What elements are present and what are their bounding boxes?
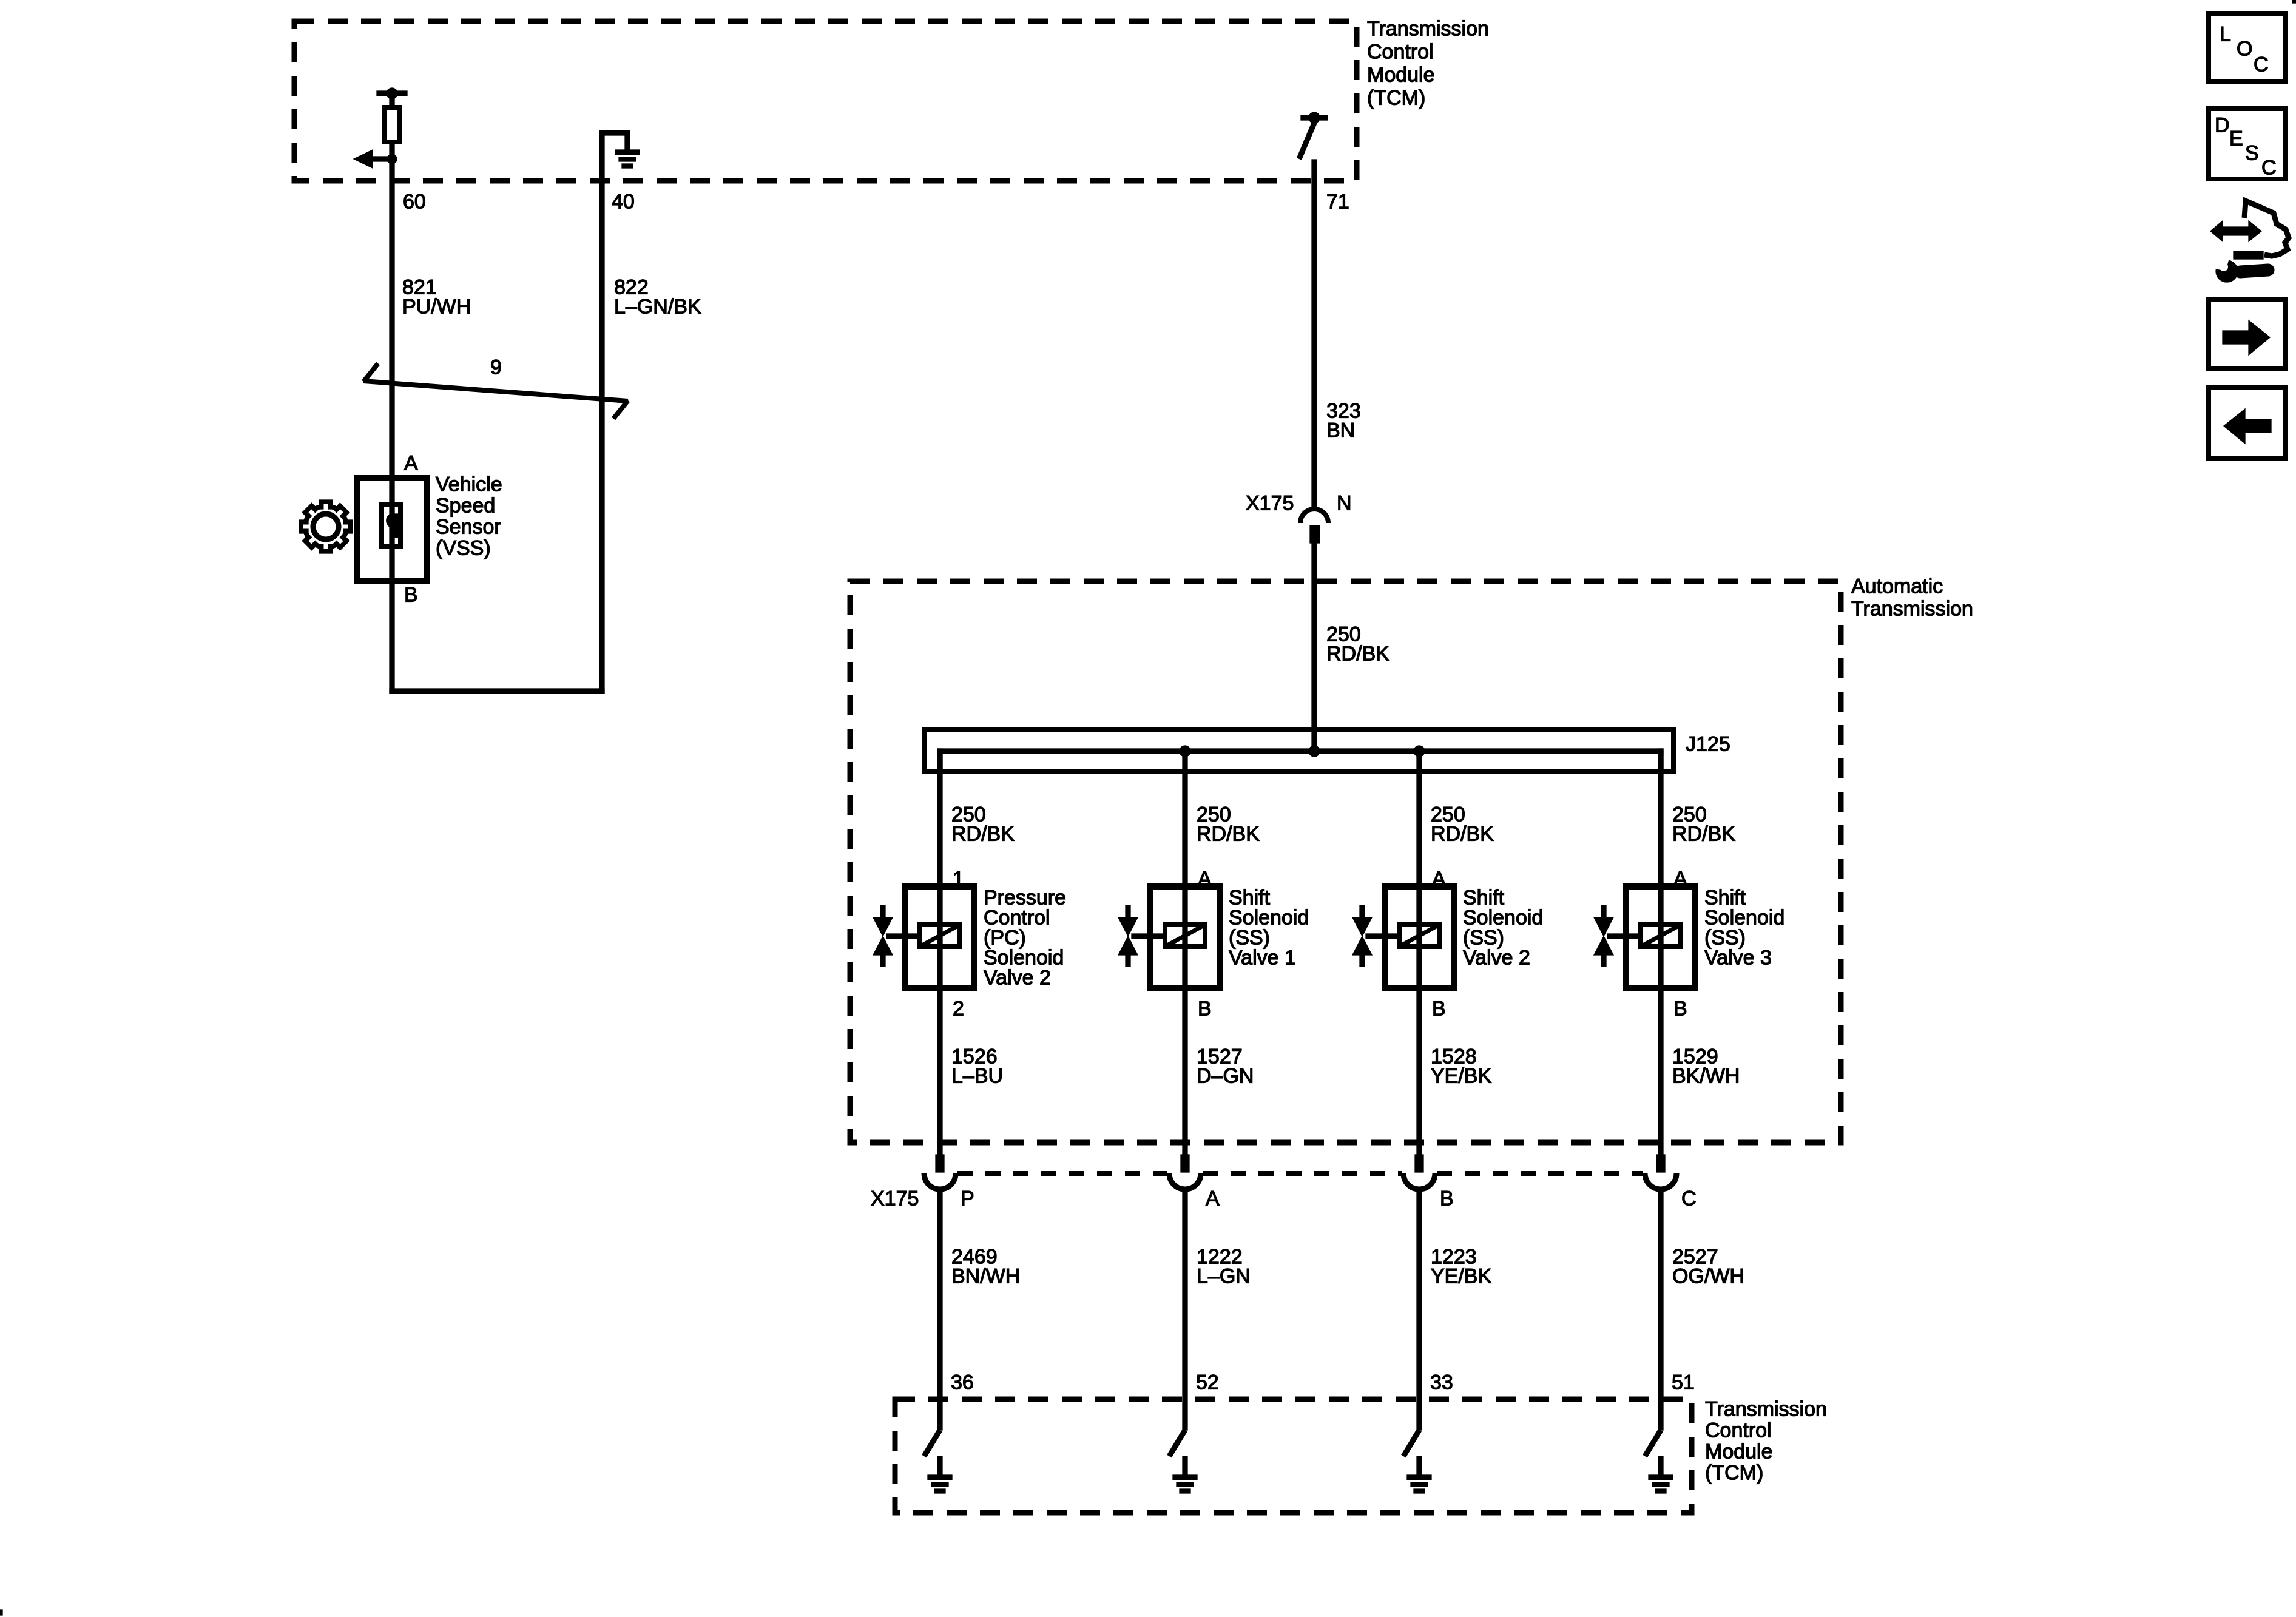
svg-text:Valve 3: Valve 3	[1704, 947, 1772, 970]
svg-text:PU/WH: PU/WH	[402, 295, 471, 319]
switch (TCM internal, pin 52)	[1169, 1430, 1185, 1456]
pin 33 label	[1430, 1371, 1453, 1394]
pin 52 label	[1196, 1371, 1219, 1394]
svg-text:(TCM): (TCM)	[1367, 87, 1425, 110]
connector X175 pin P label	[961, 1187, 974, 1210]
splice J125 (bus bar)	[925, 730, 1673, 772]
svg-text:L: L	[2220, 23, 2231, 46]
wire: resistor to pin 60 to VSS pin A	[390, 144, 394, 581]
wire 2527 OG/WH: X175 C to TCM pin 51	[1658, 1188, 1663, 1430]
wire 821 PU/WH label	[402, 276, 471, 319]
VSS pin B label	[404, 584, 418, 607]
svg-text:J125: J125	[1686, 733, 1730, 756]
svg-text:BK/WH: BK/WH	[1672, 1065, 1740, 1088]
pin A label (SS valve 3)	[1673, 868, 1687, 891]
wire 1222 L–GN: X175 A to TCM pin 52	[1183, 1188, 1187, 1430]
svg-text:(VSS): (VSS)	[436, 537, 491, 560]
VSS pin A label	[404, 452, 418, 475]
svg-text:B: B	[1432, 998, 1446, 1021]
valve symbol (SS valve 3)	[1594, 905, 1613, 967]
svg-text:B: B	[404, 584, 418, 607]
svg-text:(TCM): (TCM)	[1705, 1462, 1763, 1485]
wire 1528 label	[1431, 1045, 1491, 1088]
ground (TCM internal, pin 36)	[928, 1456, 952, 1493]
svg-text:BN: BN	[1326, 419, 1355, 442]
wire 1527 D–GN: SS valve 1 to X175 A	[1183, 988, 1187, 1155]
svg-text:X175: X175	[1246, 492, 1294, 515]
svg-text:Module: Module	[1367, 64, 1435, 87]
svg-text:Module: Module	[1705, 1440, 1773, 1463]
svg-text:Transmission: Transmission	[1367, 18, 1489, 41]
svg-text:36: 36	[951, 1371, 974, 1394]
wire 1223 YE/BK: X175 B to TCM pin 33	[1417, 1188, 1422, 1430]
wire 1223 label	[1431, 1246, 1491, 1288]
wire 250 RD/BK: X175 N to splice J125	[1312, 543, 1317, 754]
junction dot J125 (branch 2)	[1180, 746, 1190, 757]
wire 2469 BN/WH: X175 P to TCM pin 36	[937, 1188, 942, 1430]
icon: adjust (hand with wrench)	[2210, 201, 2289, 282]
svg-text:C: C	[2254, 53, 2269, 76]
svg-text:Control: Control	[1367, 41, 1434, 64]
svg-text:RD/BK: RD/BK	[1326, 643, 1389, 666]
svg-text:2: 2	[953, 998, 964, 1021]
connector X175 pin B label	[1440, 1187, 1454, 1210]
switch (TCM internal, pin 71)	[1299, 112, 1328, 159]
svg-text:RD/BK: RD/BK	[1197, 823, 1260, 846]
solenoid SS valve 2	[1366, 886, 1454, 988]
label: Pressure Control (PC) Solenoid Valve 2	[984, 886, 1066, 990]
svg-text:D: D	[2215, 114, 2230, 137]
svg-text:33: 33	[1430, 1371, 1453, 1394]
icon: forward arrow box	[2209, 299, 2285, 369]
wire 250 RD/BK label (feed)	[1326, 623, 1389, 666]
ground (TCM internal, pin 33)	[1407, 1456, 1431, 1493]
Transmission Control Module (TCM) box (top)	[294, 21, 1357, 181]
svg-text:52: 52	[1196, 1371, 1219, 1394]
junction dot J125 (feed)	[1309, 746, 1320, 757]
valve symbol (SS valve 1)	[1118, 905, 1138, 967]
icon: DESC box	[2209, 109, 2285, 180]
svg-text:B: B	[1198, 998, 1212, 1021]
wire 1222 label	[1197, 1246, 1251, 1288]
pin 51 label	[1672, 1371, 1695, 1394]
label: Shift Solenoid (SS) Valve 1	[1229, 886, 1309, 970]
pin 1 label (PC solenoid valve 2)	[953, 868, 964, 891]
wire 250 RD/BK branch 4: J125 to SS valve 3	[1658, 751, 1663, 886]
svg-text:OG/WH: OG/WH	[1672, 1265, 1744, 1288]
resistor (TCM internal, pin 60)	[377, 88, 407, 142]
svg-text:RD/BK: RD/BK	[1431, 823, 1494, 846]
svg-text:Valve 1: Valve 1	[1229, 947, 1296, 970]
wire 250 RD/BK label (branch 1)	[951, 803, 1015, 846]
wire 1527 label	[1197, 1045, 1254, 1088]
gear icon (VSS)	[299, 500, 353, 553]
connector X175 pin A (male pin + female arc)	[1169, 1155, 1201, 1189]
label: Vehicle Speed Sensor (VSS)	[436, 473, 502, 560]
pin 71 label	[1326, 191, 1349, 214]
Transmission Control Module (TCM) box (bottom)	[895, 1399, 1692, 1513]
svg-text:B: B	[1673, 998, 1687, 1021]
valve symbol (SS valve 2)	[1352, 905, 1372, 967]
label: Transmission Control Module (TCM) top	[1367, 18, 1489, 110]
ground (TCM internal, pin 51)	[1649, 1456, 1673, 1493]
svg-text:A: A	[1206, 1187, 1220, 1210]
wire 250 RD/BK branch 1: J125 to PC solenoid valve 2	[937, 751, 942, 886]
svg-text:Automatic: Automatic	[1851, 575, 1943, 598]
solenoid SS valve 3	[1607, 886, 1695, 988]
svg-text:71: 71	[1326, 191, 1349, 214]
label 9	[490, 356, 502, 379]
label J125	[1686, 733, 1730, 756]
connector X175 label (bottom)	[871, 1187, 919, 1210]
wire 250 RD/BK label (branch 4)	[1672, 803, 1735, 846]
svg-text:O: O	[2237, 38, 2252, 61]
icon: back arrow box	[2209, 388, 2285, 459]
pin 60 label	[403, 191, 426, 214]
svg-text:D–GN: D–GN	[1197, 1065, 1254, 1088]
svg-text:L–GN: L–GN	[1197, 1265, 1251, 1288]
svg-text:L–GN/BK: L–GN/BK	[614, 295, 701, 319]
svg-text:Valve 2: Valve 2	[1463, 947, 1530, 970]
ground (TCM internal, pin 40)	[599, 130, 640, 168]
svg-text:X175: X175	[871, 1187, 919, 1210]
svg-text:C: C	[1681, 1187, 1697, 1210]
pin 2 label (PC solenoid valve 2)	[953, 998, 964, 1021]
label: Shift Solenoid (SS) Valve 2	[1463, 886, 1543, 970]
off-page reference line 9 (crosses wires 821/822)	[363, 363, 628, 419]
svg-text:B: B	[1440, 1187, 1454, 1210]
valve symbol (PC solenoid valve 2)	[873, 905, 893, 967]
svg-text:Speed: Speed	[436, 495, 495, 518]
svg-text:P: P	[961, 1187, 974, 1210]
Vehicle Speed Sensor (VSS) box	[357, 478, 427, 581]
svg-text:RD/BK: RD/BK	[1672, 823, 1735, 846]
svg-text:S: S	[2245, 142, 2259, 165]
wire 1528 YE/BK: SS valve 2 to X175 B	[1417, 988, 1422, 1155]
wire 2469 label	[951, 1246, 1020, 1288]
svg-text:51: 51	[1672, 1371, 1695, 1394]
wire 1526 L–BU: PC solenoid valve 2 to X175 P	[937, 988, 942, 1155]
switch (TCM internal, pin 33)	[1403, 1430, 1419, 1456]
junction dot J125 (branch 3)	[1414, 746, 1425, 757]
svg-text:Control: Control	[1705, 1419, 1772, 1442]
pin B label (SS valve 1)	[1198, 998, 1212, 1021]
connector X175 pin B (male pin + female arc)	[1403, 1155, 1435, 1189]
svg-text:Transmission: Transmission	[1705, 1398, 1827, 1421]
pin 40 label	[612, 191, 635, 214]
svg-text:RD/BK: RD/BK	[951, 823, 1015, 846]
wire 250 RD/BK branch 3: J125 to SS valve 2	[1417, 751, 1422, 886]
wire 250 RD/BK label (branch 3)	[1431, 803, 1494, 846]
svg-text:60: 60	[403, 191, 426, 214]
connector X175 pin N (female arc + male pin)	[1300, 509, 1328, 543]
svg-text:E: E	[2229, 127, 2243, 150]
wire 323 BN (TCM pin 71 to X175 N)	[1312, 160, 1317, 511]
pin A label (SS valve 2)	[1432, 868, 1446, 891]
wire 250 RD/BK branch 2: J125 to SS valve 1	[1183, 751, 1187, 886]
Automatic Transmission box	[850, 581, 1841, 1143]
svg-text:YE/BK: YE/BK	[1431, 1265, 1491, 1288]
svg-text:C: C	[2261, 157, 2277, 180]
connector X175 pin P (male pin + female arc)	[924, 1155, 956, 1189]
connector X175 label (top)	[1246, 492, 1294, 515]
switch (TCM internal, pin 51)	[1645, 1430, 1661, 1456]
connector X175 pin C label	[1681, 1187, 1697, 1210]
svg-text:BN/WH: BN/WH	[951, 1265, 1020, 1288]
wire 822 L-GN/BK label	[614, 276, 701, 319]
connector X175 pin A label	[1206, 1187, 1220, 1210]
svg-text:40: 40	[612, 191, 635, 214]
ground (TCM internal, pin 52)	[1173, 1456, 1197, 1493]
connector X175 pin N label	[1337, 492, 1352, 515]
svg-text:YE/BK: YE/BK	[1431, 1065, 1491, 1088]
icon: LOC box	[2209, 13, 2285, 82]
wire 2527 label	[1672, 1246, 1744, 1288]
wire 250 RD/BK label (branch 2)	[1197, 803, 1260, 846]
wire: VSS pin B down	[390, 581, 394, 694]
pin B label (SS valve 3)	[1673, 998, 1687, 1021]
pin A label (SS valve 1)	[1198, 868, 1212, 891]
connector X175 dashed line	[957, 1171, 1643, 1176]
svg-text:Sensor: Sensor	[436, 516, 501, 539]
connector X175 pin C (male pin + female arc)	[1645, 1155, 1676, 1189]
wire 1526 label	[951, 1045, 1003, 1088]
label: Transmission Control Module (TCM) bottom	[1705, 1398, 1827, 1485]
solenoid PC solenoid valve 2	[886, 886, 974, 988]
label: Shift Solenoid (SS) Valve 3	[1704, 886, 1784, 970]
wire 323 BN label	[1326, 400, 1361, 442]
pin B label (SS valve 2)	[1432, 998, 1446, 1021]
svg-text:N: N	[1337, 492, 1352, 515]
svg-text:Valve 2: Valve 2	[984, 967, 1051, 990]
wire: bottom loop to wire 822	[390, 689, 604, 694]
wire 1529 label	[1672, 1045, 1740, 1088]
wire 822 segment: ground corner down through pin 40	[599, 133, 604, 694]
junction node + signal arrow (TCM pin 60)	[354, 150, 397, 168]
svg-text:L–BU: L–BU	[951, 1065, 1003, 1088]
svg-text:A: A	[404, 452, 418, 475]
svg-text:Vehicle: Vehicle	[436, 473, 502, 496]
solenoid SS valve 1	[1132, 886, 1220, 988]
pin 36 label	[951, 1371, 974, 1394]
svg-text:9: 9	[490, 356, 502, 379]
svg-text:Transmission: Transmission	[1851, 598, 1973, 621]
label: Automatic Transmission	[1851, 575, 1973, 621]
wire 1529 BK/WH: SS valve 3 to X175 C	[1658, 988, 1663, 1155]
switch (TCM internal, pin 36)	[924, 1430, 940, 1456]
